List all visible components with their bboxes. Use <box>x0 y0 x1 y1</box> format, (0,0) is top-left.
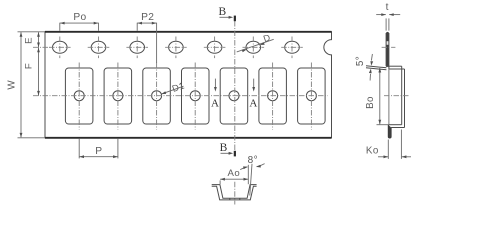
sprocket hole 3 <box>130 41 145 53</box>
svg-text:Bo: Bo <box>365 96 376 109</box>
sprocket hole 4 <box>169 41 184 53</box>
pocket 2 vertical centerline <box>117 63 119 130</box>
dimension Po <box>60 22 99 24</box>
pocket 5 <box>220 68 248 124</box>
svg-text:Po: Po <box>73 12 86 23</box>
dimension E <box>38 32 40 47</box>
dimension Ao <box>220 178 248 180</box>
pocket hole D1 circle, pocket 1 <box>74 91 84 101</box>
svg-text:8°: 8° <box>248 155 258 166</box>
centerline crosshair hole 3 <box>126 46 148 48</box>
section B-B tape cross-section (cut material) <box>386 32 389 67</box>
dimension W <box>20 32 22 137</box>
pocket 1 <box>65 68 93 124</box>
B-B jog back <box>388 124 401 126</box>
centerline crosshair hole 5 <box>204 46 226 48</box>
svg-text:B: B <box>220 142 228 154</box>
svg-text:W: W <box>7 80 18 90</box>
pocket hole D1 circle, pocket 5 <box>229 91 239 101</box>
leader D1 (pocket hole diameter) <box>161 86 183 94</box>
centerline crosshair hole 2 <box>88 46 110 48</box>
8 deg angle arrows <box>240 167 247 170</box>
svg-text:A: A <box>211 97 219 109</box>
section A-A pocket inner contour <box>212 185 257 199</box>
svg-text:A: A <box>249 97 257 109</box>
svg-text:P: P <box>95 146 102 157</box>
B-B jog to pocket floor <box>386 65 402 67</box>
section mark B bottom <box>234 151 236 157</box>
5 deg angle arrows <box>371 54 372 61</box>
B-B pocket floor <box>401 66 403 125</box>
pocket 6 vertical centerline <box>272 63 274 130</box>
pocket 4 <box>182 68 210 124</box>
section mark A left <box>214 79 216 89</box>
pocket hole D1 circle, pocket 7 <box>306 91 316 101</box>
B-B pocket far-wall projection line <box>388 69 390 125</box>
svg-text:B: B <box>218 6 226 18</box>
pocket row horizontal centerline <box>33 95 328 97</box>
svg-text:Ko: Ko <box>366 146 379 157</box>
section mark B top <box>234 16 236 22</box>
dimension t <box>376 14 386 16</box>
E/F left extension of sprocket centerline <box>33 46 50 48</box>
pocket hole D1 circle, pocket 2 <box>113 91 123 101</box>
dimension W extension lines <box>18 31 45 33</box>
centerline crosshair hole 7 <box>281 46 303 48</box>
B-B pocket centerline tick <box>384 95 409 97</box>
svg-text:E: E <box>24 37 35 44</box>
dimension Po extension ticks <box>59 23 61 31</box>
centerline crosshair hole 1 <box>49 46 71 48</box>
dimension Ko <box>378 156 388 158</box>
svg-text:Ao: Ao <box>228 168 241 179</box>
pocket 6 <box>259 68 287 124</box>
5 deg flange piece <box>366 66 386 68</box>
dimension Ao extension lines <box>219 180 221 184</box>
centerline crosshair hole 6 <box>243 46 265 48</box>
dimension Bo extension line <box>377 124 389 126</box>
svg-text:t: t <box>386 2 389 13</box>
B-B sprocket centerline tick <box>382 46 396 48</box>
section line B-B (through pocket 5) <box>234 21 236 153</box>
sprocket hole 1 <box>53 41 68 53</box>
sprocket hole 6 <box>246 41 261 53</box>
leader D (sprocket hole diameter) <box>237 39 274 52</box>
section A-A pocket centerline <box>234 182 236 205</box>
pocket 4 vertical centerline <box>194 63 196 130</box>
pocket 1 vertical centerline <box>78 63 80 130</box>
dimension P2 <box>137 22 156 24</box>
carrier tape outline (plan view) <box>45 32 332 138</box>
dimension P2 extension ticks <box>136 23 138 31</box>
svg-text:P2: P2 <box>141 12 154 23</box>
pocket bottom hole edge ticks <box>229 198 231 200</box>
pocket 3 <box>143 68 171 124</box>
pocket 3 vertical centerline <box>156 63 158 130</box>
sprocket hole 2 <box>91 41 106 53</box>
sprocket hole 7 <box>285 41 300 53</box>
centerline crosshair hole 4 <box>165 46 187 48</box>
8 deg draft line <box>250 164 252 196</box>
dimension P extension lines <box>78 139 80 159</box>
dimension t extension lines <box>385 18 387 30</box>
pocket 7 vertical centerline <box>310 63 312 130</box>
dimension F <box>38 47 40 95</box>
pocket hole D1 circle, pocket 6 <box>268 91 278 101</box>
dimension P <box>79 156 118 158</box>
svg-text:F: F <box>24 63 35 69</box>
svg-text:5°: 5° <box>355 56 366 66</box>
dimension Ko extension lines <box>387 140 389 159</box>
B-B bottom stub <box>388 125 391 138</box>
dimension Bo <box>379 68 381 124</box>
B-B sprocket hole gap in cut <box>387 41 389 45</box>
section mark A right <box>253 79 255 89</box>
sprocket hole 5 <box>207 41 222 53</box>
section A-A pocket outer contour <box>212 186 257 200</box>
pocket 2 <box>104 68 132 124</box>
pocket hole D1 circle, pocket 4 <box>190 91 200 101</box>
pocket 7 <box>298 68 326 124</box>
pocket hole D1 circle, pocket 3 <box>152 91 162 101</box>
